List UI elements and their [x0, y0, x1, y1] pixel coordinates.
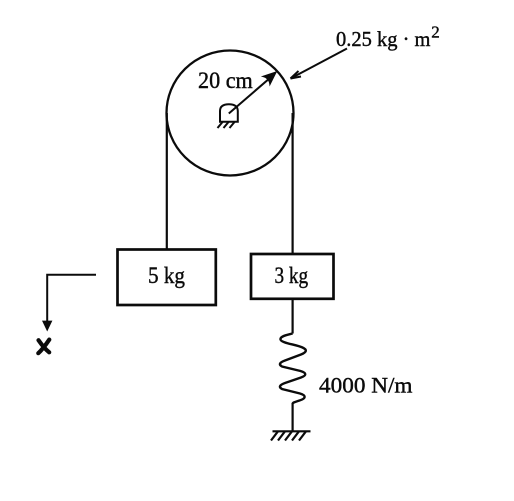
wire spring to ground: [292, 404, 294, 431]
svg-text:5 kg: 5 kg: [148, 263, 185, 288]
svg-text:3 kg: 3 kg: [275, 263, 309, 288]
mass block 3 kg: [251, 254, 334, 299]
svg-text:20 cm: 20 cm: [198, 68, 253, 93]
wire right rope: [292, 113, 294, 254]
wire left rope: [166, 113, 168, 250]
svg-text:0.25 kg · m: 0.25 kg · m: [336, 27, 431, 51]
svg-text:2: 2: [431, 22, 440, 41]
spring 4000 N/m: [280, 334, 306, 405]
radius arrow: [229, 72, 276, 114]
wire box to spring: [292, 299, 294, 334]
inertia arrow: [291, 49, 348, 79]
mass block 5 kg: [118, 250, 216, 306]
svg-text:4000 N/m: 4000 N/m: [319, 373, 413, 398]
pulley disk: [167, 51, 294, 176]
label x: [38, 340, 49, 354]
x axis indicator: [47, 275, 96, 322]
pivot support: [218, 104, 238, 128]
ground: [271, 431, 311, 440]
